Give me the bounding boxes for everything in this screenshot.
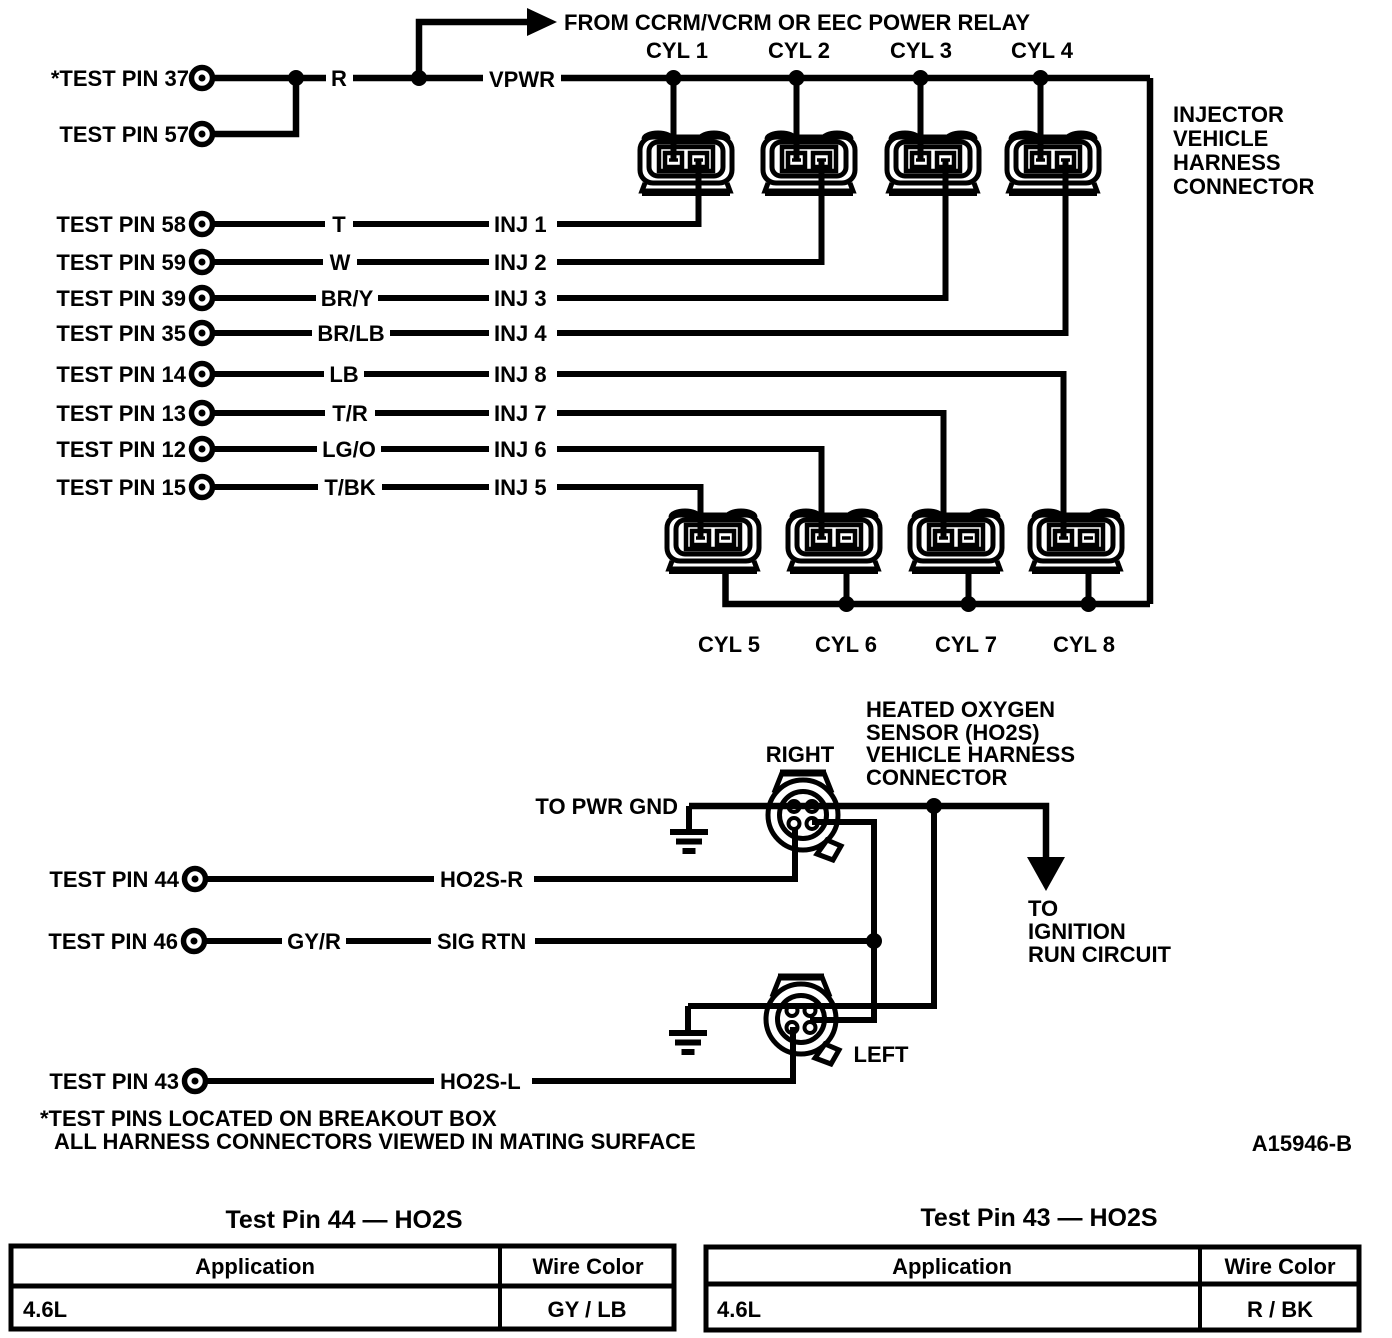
svg-text:HO2S-R: HO2S-R xyxy=(440,867,523,892)
svg-text:R: R xyxy=(331,66,347,91)
test pin 58 xyxy=(192,214,213,235)
svg-text:INJ 5: INJ 5 xyxy=(494,475,547,500)
svg-text:LEFT: LEFT xyxy=(854,1042,910,1067)
label INJ 2 xyxy=(489,249,557,275)
svg-text:TO PWR GND: TO PWR GND xyxy=(535,794,678,819)
node junction arrow xyxy=(411,70,427,86)
wire cyl8 riser xyxy=(1086,573,1092,604)
svg-text:T: T xyxy=(332,212,346,237)
svg-text:VEHICLE: VEHICLE xyxy=(1173,126,1268,151)
node cyl6 xyxy=(839,596,855,612)
wire INJ 6 xyxy=(213,449,822,538)
node cyl4 xyxy=(1033,70,1049,86)
svg-text:TEST PIN 44: TEST PIN 44 xyxy=(49,867,179,892)
test pin 44 xyxy=(185,869,206,890)
wire cyl1 drop xyxy=(671,78,677,161)
connector HO2S left xyxy=(766,977,839,1064)
label INJ 6 xyxy=(489,436,557,462)
label wire color BR/LB xyxy=(312,320,390,346)
svg-text:INJ 4: INJ 4 xyxy=(494,321,547,346)
test pin 35 xyxy=(192,323,213,344)
wire cyl6 riser xyxy=(844,573,850,604)
node cyl1 xyxy=(666,70,682,86)
svg-text:CYL 4: CYL 4 xyxy=(1011,38,1074,63)
svg-text:INJ 8: INJ 8 xyxy=(494,362,547,387)
label wire color GY/R xyxy=(282,928,346,954)
svg-text:LG/O: LG/O xyxy=(322,437,376,462)
label wire color T/R xyxy=(325,400,375,426)
svg-text:VPWR: VPWR xyxy=(489,67,555,92)
svg-text:TEST PIN 15: TEST PIN 15 xyxy=(56,475,186,500)
label TO IGNITION RUN CIRCUIT xyxy=(1028,896,1172,967)
wire INJ 8 xyxy=(213,374,1064,538)
svg-text:HEATED OXYGEN: HEATED OXYGEN xyxy=(866,697,1055,722)
label HEATED OXYGEN SENSOR (HO2S) VEHICLE HARNESS CONNECTOR xyxy=(866,697,1075,790)
label wire color W xyxy=(323,249,357,275)
svg-text:CONNECTOR: CONNECTOR xyxy=(1173,174,1314,199)
svg-text:Test Pin 44 — HO2S: Test Pin 44 — HO2S xyxy=(225,1206,462,1234)
label VPWR net xyxy=(483,64,561,92)
label INJECTOR VEHICLE HARNESS CONNECTOR xyxy=(1173,102,1314,199)
label wire color BR/Y xyxy=(316,285,378,311)
wire cyl2 drop xyxy=(794,78,800,161)
connector HO2S right xyxy=(768,773,841,860)
wire INJ 5 xyxy=(213,487,701,538)
svg-text:*TEST PIN 37: *TEST PIN 37 xyxy=(51,66,189,91)
label INJ 8 xyxy=(489,361,557,387)
svg-text:Application: Application xyxy=(195,1254,315,1279)
test pin 15 xyxy=(192,477,213,498)
svg-text:CYL 2: CYL 2 xyxy=(768,38,830,63)
svg-text:INJ 7: INJ 7 xyxy=(494,401,547,426)
svg-text:BR/Y: BR/Y xyxy=(321,286,374,311)
node sig rtn junction xyxy=(866,933,882,949)
connector CYL3 injector xyxy=(887,133,979,193)
test pin 57 xyxy=(192,124,213,145)
wire INJ 1 xyxy=(213,160,699,224)
wire INJ 7 xyxy=(213,413,944,538)
label HO2S-R xyxy=(434,866,534,892)
ground left sensor xyxy=(669,1033,707,1052)
label INJ 4 xyxy=(489,320,557,346)
svg-text:TEST PIN 58: TEST PIN 58 xyxy=(56,212,186,237)
svg-text:A15946-B: A15946-B xyxy=(1252,1131,1352,1156)
svg-text:CYL 3: CYL 3 xyxy=(890,38,952,63)
svg-text:VEHICLE HARNESS: VEHICLE HARNESS xyxy=(866,742,1075,767)
connector CYL6 injector xyxy=(788,511,880,571)
connector CYL5 injector xyxy=(667,511,759,571)
svg-text:GY / LB: GY / LB xyxy=(547,1297,626,1322)
svg-text:4.6L: 4.6L xyxy=(717,1297,761,1322)
label INJ 5 xyxy=(489,474,557,500)
svg-text:T/BK: T/BK xyxy=(324,475,375,500)
label HO2S-L xyxy=(434,1068,532,1094)
test pin 43 xyxy=(185,1071,206,1092)
wire VPWR feed vertical right side xyxy=(1147,78,1154,604)
wire INJ 2 xyxy=(213,160,822,262)
svg-text:TEST PIN 46: TEST PIN 46 xyxy=(48,929,178,954)
svg-text:Test Pin 43 — HO2S: Test Pin 43 — HO2S xyxy=(920,1204,1157,1232)
test pin 39 xyxy=(192,288,213,309)
svg-text:ALL HARNESS CONNECTORS VIEWED: ALL HARNESS CONNECTORS VIEWED IN MATING … xyxy=(54,1129,696,1154)
svg-text:CYL 5: CYL 5 xyxy=(698,632,760,657)
svg-text:Wire Color: Wire Color xyxy=(1224,1254,1335,1279)
svg-text:IGNITION: IGNITION xyxy=(1028,919,1126,944)
svg-text:W: W xyxy=(330,250,351,275)
svg-text:T/R: T/R xyxy=(332,401,368,426)
svg-text:TEST PIN 12: TEST PIN 12 xyxy=(56,437,186,462)
wire HO2S-L xyxy=(206,1027,793,1081)
wire right sensor heater return xyxy=(810,822,874,1020)
node cyl8 xyxy=(1081,596,1097,612)
svg-text:*TEST PINS LOCATED ON BREAKOUT: *TEST PINS LOCATED ON BREAKOUT BOX xyxy=(40,1106,497,1131)
svg-text:Application: Application xyxy=(892,1254,1012,1279)
test pin 13 xyxy=(192,403,213,424)
label INJ 3 xyxy=(489,285,557,311)
svg-text:RIGHT: RIGHT xyxy=(766,742,835,767)
wire cyl4 drop xyxy=(1038,78,1044,161)
svg-text:CYL 8: CYL 8 xyxy=(1053,632,1115,657)
connector CYL7 injector xyxy=(910,511,1002,571)
svg-text:INJ 2: INJ 2 xyxy=(494,250,547,275)
svg-text:TEST PIN 14: TEST PIN 14 xyxy=(56,362,186,387)
svg-text:TEST PIN 39: TEST PIN 39 xyxy=(56,286,186,311)
node junction R xyxy=(288,70,304,86)
svg-text:GY/R: GY/R xyxy=(287,929,341,954)
connector CYL4 injector xyxy=(1007,133,1099,193)
svg-text:BR/LB: BR/LB xyxy=(317,321,384,346)
test pin 46 xyxy=(184,931,205,952)
wire INJ 3 xyxy=(213,160,946,298)
wire PWR GND to ignition xyxy=(689,806,1046,858)
svg-text:TEST PIN 35: TEST PIN 35 xyxy=(56,321,186,346)
node cyl3 xyxy=(913,70,929,86)
wire right sensor ground drop xyxy=(686,806,692,830)
test pin 12 xyxy=(192,439,213,460)
svg-text:LB: LB xyxy=(329,362,358,387)
label INJ 1 xyxy=(489,211,557,237)
svg-text:TEST PIN 57: TEST PIN 57 xyxy=(59,122,189,147)
wire to power relay arrow xyxy=(419,22,527,78)
svg-text:INJECTOR: INJECTOR xyxy=(1173,102,1284,127)
svg-text:4.6L: 4.6L xyxy=(23,1297,67,1322)
label SIG RTN xyxy=(431,928,535,954)
wire cyl3 drop xyxy=(918,78,924,161)
connector CYL1 injector xyxy=(640,133,732,193)
label wire color LG/O xyxy=(317,436,381,462)
wire bottom bus xyxy=(726,573,1151,604)
svg-text:HO2S-L: HO2S-L xyxy=(440,1069,521,1094)
wire cyl7 riser xyxy=(966,573,972,604)
wire SIG RTN xyxy=(206,938,874,944)
label wire color T/BK xyxy=(318,474,382,500)
node cyl2 xyxy=(789,70,805,86)
svg-text:TEST PIN 59: TEST PIN 59 xyxy=(56,250,186,275)
table test pin 43 xyxy=(706,1247,1359,1330)
svg-text:SIG RTN: SIG RTN xyxy=(437,929,526,954)
wire test pin 57 xyxy=(213,78,296,134)
test pin 14 xyxy=(192,364,213,385)
arrow to ignition run circuit xyxy=(1027,857,1065,891)
connector CYL8 injector xyxy=(1030,511,1122,571)
node pwr gnd junction xyxy=(926,798,942,814)
svg-text:TO: TO xyxy=(1028,896,1058,921)
wire INJ 4 xyxy=(213,160,1066,333)
svg-text:INJ 1: INJ 1 xyxy=(494,212,547,237)
test pin 37 xyxy=(192,68,213,89)
svg-text:CYL 6: CYL 6 xyxy=(815,632,877,657)
wire VPWR bus xyxy=(213,75,1150,82)
svg-text:HARNESS: HARNESS xyxy=(1173,150,1281,175)
node cyl7 xyxy=(961,596,977,612)
table test pin 44 xyxy=(11,1246,674,1329)
test pin 59 xyxy=(192,252,213,273)
wire left sensor feed xyxy=(688,806,934,1006)
label INJ 7 xyxy=(489,400,557,426)
svg-text:INJ 3: INJ 3 xyxy=(494,286,547,311)
svg-text:R / BK: R / BK xyxy=(1247,1297,1313,1322)
wire left sensor ground drop xyxy=(685,1006,691,1031)
svg-text:CONNECTOR: CONNECTOR xyxy=(866,765,1007,790)
svg-text:TEST PIN 13: TEST PIN 13 xyxy=(56,401,186,426)
label wire color T xyxy=(325,211,353,237)
wire HO2S-R xyxy=(206,828,795,879)
label R net xyxy=(326,64,353,92)
svg-text:CYL 7: CYL 7 xyxy=(935,632,997,657)
ground right sensor xyxy=(670,832,708,851)
svg-text:RUN CIRCUIT: RUN CIRCUIT xyxy=(1028,942,1172,967)
svg-text:CYL 1: CYL 1 xyxy=(646,38,708,63)
svg-text:TEST PIN 43: TEST PIN 43 xyxy=(49,1069,179,1094)
svg-text:INJ 6: INJ 6 xyxy=(494,437,547,462)
svg-text:Wire Color: Wire Color xyxy=(532,1254,643,1279)
svg-text:FROM CCRM/VCRM OR EEC POWER RE: FROM CCRM/VCRM OR EEC POWER RELAY xyxy=(564,10,1030,35)
connector CYL2 injector xyxy=(763,133,855,193)
label wire color LB xyxy=(324,361,364,387)
